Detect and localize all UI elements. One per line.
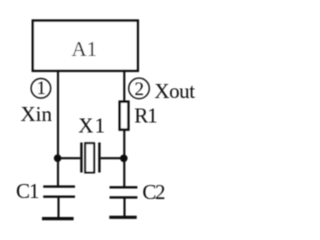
junction node left <box>54 154 62 162</box>
crystal X1 left electrode plate <box>80 143 82 173</box>
capacitor C1 bottom plate <box>43 195 75 197</box>
wire crystal left horizontal <box>57 157 80 159</box>
pin circle 2 <box>129 78 150 99</box>
capacitor C2 top plate <box>110 186 138 188</box>
crystal X1 right electrode plate <box>98 143 100 173</box>
capacitor C2 bottom plate <box>110 196 138 198</box>
wire right vertical lower <box>123 130 125 188</box>
svg-text:R1: R1 <box>134 104 157 128</box>
svg-text:1: 1 <box>37 78 47 99</box>
ground bar right <box>109 216 136 219</box>
amplifier A1 <box>33 21 138 71</box>
pin circle 1 <box>31 79 51 99</box>
junction node right <box>120 155 128 163</box>
wire C2 to ground <box>123 197 125 216</box>
svg-text:C1: C1 <box>16 179 39 203</box>
capacitor C1 top plate <box>43 185 75 187</box>
wire left pin (Xin) vertical <box>57 71 59 187</box>
svg-text:Xout: Xout <box>154 79 195 103</box>
wire right pin (Xout) vertical upper <box>123 71 125 102</box>
svg-text:A1: A1 <box>71 37 97 61</box>
svg-text:2: 2 <box>135 79 145 100</box>
crystal X1 body box <box>85 143 94 172</box>
resistor R1 <box>120 102 129 130</box>
wire crystal right horizontal <box>101 157 125 159</box>
svg-text:Xin: Xin <box>21 102 53 126</box>
svg-text:C2: C2 <box>142 180 165 204</box>
svg-text:X1: X1 <box>78 114 106 138</box>
ground bar left <box>42 217 74 220</box>
wire C1 to ground <box>57 197 59 218</box>
